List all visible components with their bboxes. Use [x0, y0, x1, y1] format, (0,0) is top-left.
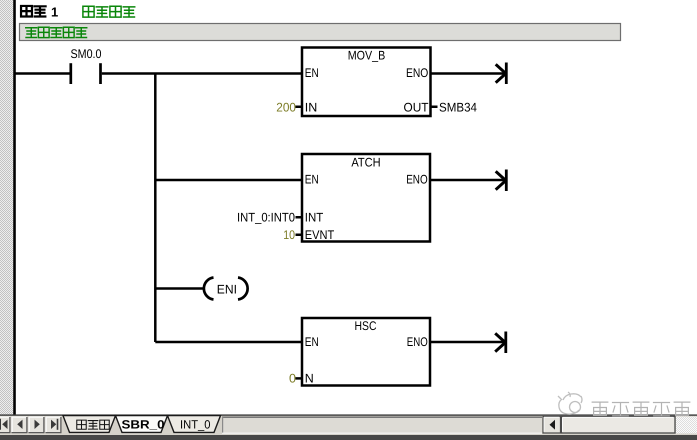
svg-text:EN: EN — [305, 173, 319, 187]
svg-text:SM0.0: SM0.0 — [71, 47, 102, 61]
svg-text:200: 200 — [276, 100, 296, 114]
svg-text:ENO: ENO — [406, 66, 429, 80]
svg-text:N: N — [305, 372, 314, 386]
svg-text:0: 0 — [289, 372, 296, 386]
svg-text:1: 1 — [51, 5, 58, 20]
svg-text:SBR_0: SBR_0 — [122, 418, 165, 432]
svg-text:EN: EN — [305, 335, 319, 349]
svg-text:10: 10 — [283, 228, 295, 242]
svg-text:ENO: ENO — [407, 335, 428, 349]
svg-text:ATCH: ATCH — [351, 156, 380, 170]
svg-text:INT_0:INT0: INT_0:INT0 — [237, 210, 295, 224]
svg-text:SMB34: SMB34 — [439, 100, 477, 114]
svg-text:INT: INT — [305, 211, 324, 225]
svg-text:INT_0: INT_0 — [180, 417, 211, 431]
svg-text:MOV_B: MOV_B — [348, 49, 386, 63]
svg-text:IN: IN — [305, 100, 318, 114]
svg-text:EVNT: EVNT — [305, 228, 335, 242]
svg-text:ENI: ENI — [217, 282, 237, 296]
svg-text:EN: EN — [305, 66, 319, 80]
svg-text:OUT: OUT — [404, 100, 429, 114]
svg-text:ENO: ENO — [406, 173, 428, 187]
svg-text:HSC: HSC — [355, 319, 377, 333]
